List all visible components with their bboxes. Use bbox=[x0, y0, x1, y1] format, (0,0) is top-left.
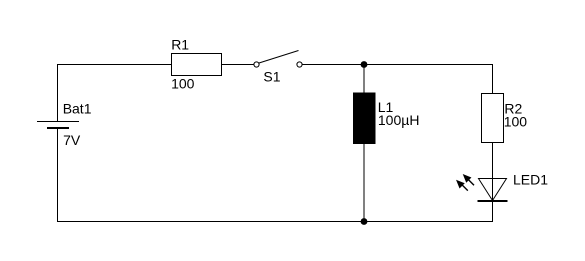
resistor R2 bbox=[482, 94, 528, 143]
svg-text:R1: R1 bbox=[171, 36, 189, 52]
wire bbox=[302, 64, 493, 66]
svg-text:100: 100 bbox=[171, 76, 195, 92]
wire bbox=[492, 64, 494, 94]
svg-text:7V: 7V bbox=[63, 132, 81, 148]
wire bbox=[492, 142, 494, 221]
svg-text:Bat1: Bat1 bbox=[63, 100, 92, 116]
wire bbox=[57, 129, 59, 223]
wire bbox=[57, 64, 59, 122]
LED LED1 bbox=[457, 171, 548, 201]
wire bbox=[57, 64, 172, 66]
resistor R1 bbox=[171, 36, 221, 91]
wire bbox=[363, 64, 365, 93]
switch S1 bbox=[254, 51, 302, 85]
battery Bat1 bbox=[37, 100, 92, 148]
svg-text:100µH: 100µH bbox=[378, 112, 420, 128]
svg-text:LED1: LED1 bbox=[513, 171, 548, 187]
node junction top bbox=[361, 61, 368, 68]
inductor L1 bbox=[353, 93, 419, 145]
svg-text:100: 100 bbox=[504, 114, 528, 130]
wire bbox=[57, 221, 493, 223]
svg-text:S1: S1 bbox=[263, 68, 280, 84]
wire bbox=[363, 144, 365, 221]
node junction bottom bbox=[361, 218, 368, 225]
wire bbox=[222, 64, 255, 66]
